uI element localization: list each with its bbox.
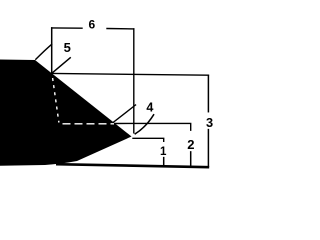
groove face ray at vertex (up-right)	[52, 58, 70, 73]
bracket 1 top horizontal and stub	[133, 138, 164, 141]
dimension line 6 left segment	[52, 27, 82, 29]
svg-text:3: 3	[206, 115, 213, 130]
left extension line (vertical from corner 6 to bevel vertex)	[51, 28, 53, 73]
bracket 3 vertical upper part	[207, 75, 209, 111]
hidden joint line: slanted dashed (white on black)	[53, 78, 59, 123]
root face line solid (bevel edge to bracket 2 corner)	[115, 123, 191, 130]
bracket 3 vertical lower part	[207, 130, 209, 166]
svg-text:6: 6	[88, 18, 95, 32]
bracket 1 vertical lower part	[163, 158, 165, 167]
svg-text:2: 2	[187, 137, 194, 152]
black workpiece (beveled plate cross-section)	[0, 60, 132, 166]
dimension line 6 right segment	[107, 28, 134, 30]
angle arc 5 (between vertical and bevel face)	[36, 44, 52, 59]
hidden joint line: horizontal dashed (white on black)	[63, 123, 115, 125]
bracket 2 vertical lower part	[190, 152, 192, 166]
svg-text:1: 1	[160, 145, 167, 158]
right extension line (vertical from corner 6 down to tip)	[133, 29, 135, 133]
svg-text:5: 5	[64, 40, 71, 55]
top surface line (vertex to bracket 3)	[52, 73, 208, 75]
bottom surface thick line	[56, 164, 209, 167]
groove face ray at tip (up-right, curved)	[135, 115, 153, 134]
svg-text:4: 4	[146, 100, 153, 114]
angle arc 4 (between bevel face and vertical)	[113, 105, 136, 123]
